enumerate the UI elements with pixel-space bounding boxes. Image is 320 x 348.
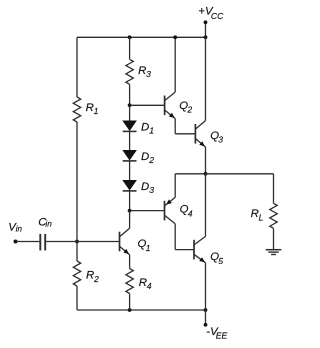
wire input node to Q1 base <box>77 241 120 243</box>
wire D1 anode lead <box>129 105 131 120</box>
wire R4 bottom lead <box>129 294 131 311</box>
wire D1-D2 lead <box>129 131 131 150</box>
wire Q1 collector lead <box>129 211 131 229</box>
wire D3 cathode lead <box>129 191 131 211</box>
svg-text:5: 5 <box>218 256 223 266</box>
diode D3 <box>122 180 137 191</box>
capacitor Cin <box>39 234 41 251</box>
resistor R1 <box>73 97 80 122</box>
wire left branch middle (R1 to input node) <box>76 122 78 242</box>
node R4-rail junction <box>128 308 132 312</box>
node bias top junction <box>128 103 132 107</box>
svg-text:D: D <box>141 151 149 163</box>
wire Q4 collector to Q5 base <box>174 224 176 250</box>
svg-text:3: 3 <box>149 185 154 195</box>
wire Q2 collector vertical <box>174 37 176 92</box>
wire R2 bottom lead <box>76 286 78 310</box>
node Q2 collector rail junction <box>173 35 177 39</box>
svg-text:3: 3 <box>146 69 151 79</box>
ground <box>266 249 282 251</box>
node output junction <box>204 172 208 176</box>
svg-text:2: 2 <box>93 274 99 284</box>
wire RL top lead <box>273 174 275 204</box>
wire Cin to input node <box>46 241 77 243</box>
transistor Q1 <box>119 232 121 252</box>
svg-text:R: R <box>138 65 146 77</box>
svg-text:3: 3 <box>218 135 223 145</box>
svg-text:2: 2 <box>186 105 192 115</box>
svg-text:L: L <box>259 213 264 223</box>
transistor Q5 <box>193 240 195 260</box>
node R3 top junction <box>128 35 132 39</box>
svg-text:1: 1 <box>146 243 151 253</box>
node input junction <box>75 240 79 244</box>
node Vin terminal <box>14 240 18 244</box>
svg-text:4: 4 <box>188 209 193 219</box>
wire output line <box>175 173 273 175</box>
wire Q5 emitter lead <box>205 263 207 310</box>
wire Q1 emitter lead <box>129 255 131 269</box>
wire Q4 base lead <box>130 210 165 212</box>
transistor Q2 <box>164 96 166 116</box>
wire main right vertical upper (Vcc to Q3 collector) <box>205 37 207 120</box>
svg-text:1: 1 <box>149 125 154 135</box>
svg-text:D: D <box>141 181 149 193</box>
node bias bottom junction <box>128 209 132 213</box>
wire Q4 emitter vertical <box>174 174 176 198</box>
svg-text:4: 4 <box>147 281 152 291</box>
wire top +Vcc rail <box>77 36 206 38</box>
svg-text:D: D <box>141 122 149 134</box>
resistor R4 <box>126 269 133 294</box>
wire R2 top lead <box>76 242 78 262</box>
wire Q3 emitter lead <box>205 147 207 174</box>
svg-text:R: R <box>86 102 94 114</box>
svg-text:in: in <box>16 223 23 233</box>
svg-text:R: R <box>139 277 147 289</box>
svg-text:R: R <box>251 208 259 220</box>
wire R3 top lead <box>129 37 131 59</box>
transistor Q3 <box>194 124 196 144</box>
wire left branch upper (rail to R1) <box>76 37 78 97</box>
wire bottom -Vee rail <box>77 309 206 311</box>
svg-text:2: 2 <box>148 155 154 165</box>
svg-text:R: R <box>86 270 94 282</box>
svg-text:1: 1 <box>94 106 99 116</box>
diode D2 <box>122 150 137 161</box>
diode D1 <box>122 121 137 132</box>
svg-text:CC: CC <box>211 11 224 21</box>
svg-text:in: in <box>45 219 52 229</box>
resistor R2 <box>73 261 80 286</box>
wire Vin to Cin <box>16 241 40 243</box>
transistor Q4 <box>164 201 166 221</box>
wire Q2 base lead <box>130 104 165 106</box>
wire RL bottom lead <box>273 228 275 249</box>
wire D2-D3 lead <box>129 161 131 180</box>
wire R3 bottom lead <box>129 84 131 105</box>
resistor RL <box>270 203 277 228</box>
wire Q5 collector lead <box>205 174 207 237</box>
resistor R3 <box>126 59 133 84</box>
node Vcc terminal with stub <box>205 22 207 37</box>
node Vee stub junction <box>204 308 208 312</box>
svg-text:EE: EE <box>216 331 228 341</box>
wire Q2 emitter to Q3 base <box>174 119 176 134</box>
wire Vee stub <box>205 310 207 325</box>
